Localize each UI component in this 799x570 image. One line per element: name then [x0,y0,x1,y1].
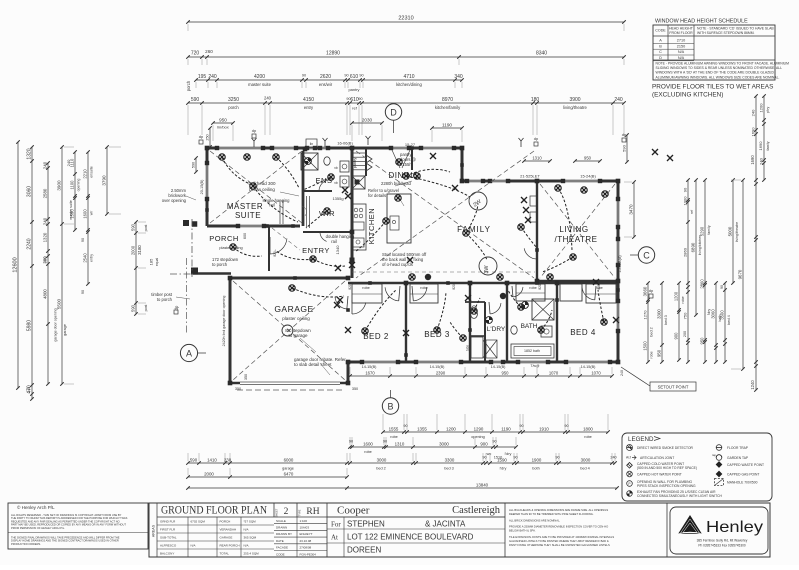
svg-text:& JACINTA: & JACINTA [425,520,466,529]
svg-text:DRAWN BY: DRAWN BY [276,532,292,536]
svg-text:2000: 2000 [131,245,136,255]
svg-text:N/A: N/A [191,543,196,547]
svg-text:CODE: CODE [655,29,666,33]
svg-text:900: 900 [674,332,679,340]
svg-text:3000: 3000 [439,442,449,447]
svg-text:BED 3: BED 3 [424,330,450,339]
svg-text:90: 90 [555,456,559,460]
svg-text:350: 350 [352,387,358,391]
svg-text:T/w@: T/w@ [531,364,540,368]
svg-text:SLIDING WINDOWS TO SIDES & RE: SLIDING WINDOWS TO SIDES & REAR UNLESS N… [656,66,783,70]
svg-text:bed 2: bed 2 [650,327,654,337]
svg-text:3060: 3060 [27,186,33,197]
svg-text:240: 240 [620,370,624,376]
svg-text:1310: 1310 [395,442,405,447]
svg-text:340: 340 [454,74,463,80]
svg-text:1510: 1510 [494,456,502,460]
svg-text:double hanging: double hanging [326,234,355,239]
svg-text:240: 240 [66,159,71,166]
svg-text:200: 200 [683,331,687,337]
svg-text:PROVIDE A 250MM DIAMETER REMOV: PROVIDE A 250MM DIAMETER REMOVABLE INSPE… [509,525,608,529]
svg-text:family: family [707,225,711,235]
svg-text:230: 230 [42,256,47,263]
svg-text:3470: 3470 [629,204,634,215]
svg-text:robe: robe [529,286,537,290]
svg-text:LEGEND: LEGEND [628,436,654,443]
svg-text:N/A: N/A [678,50,685,54]
svg-text:bed 3: bed 3 [664,315,668,325]
svg-text:DATE: DATE [276,539,284,543]
svg-text:NOTE - PROVIDE ALUMINIUM AWNIN: NOTE - PROVIDE ALUMINIUM AWNING WINDOWS … [656,62,790,66]
svg-text:l'dry: l'dry [505,452,512,456]
svg-text:PRIOR PERMISSION OF HENLEY ARC: PRIOR PERMISSION OF HENLEY ARCH P/L. [11,526,65,530]
svg-text:1690: 1690 [750,155,755,165]
svg-text:90: 90 [519,424,523,428]
svg-text:garage door opening: garage door opening [54,308,58,341]
svg-text:185: 185 [149,258,154,265]
svg-text:GARAGE: GARAGE [274,304,313,314]
svg-text:14-15(B): 14-15(B) [491,365,507,369]
svg-text:to porch: to porch [157,297,173,302]
svg-text:240: 240 [208,74,217,80]
svg-text:820: 820 [538,284,542,290]
svg-text:1690: 1690 [758,141,763,151]
svg-text:dp: dp [174,305,179,310]
svg-text:90: 90 [683,187,688,192]
svg-text:ALUMINIUM AWNING WINDOWS. ALL: ALUMINIUM AWNING WINDOWS. ALL WINDOWS SI… [656,75,780,79]
svg-text:B: B [659,44,662,48]
svg-text:REAR PORCH: REAR PORCH [220,543,240,547]
svg-text:ref: ref [690,210,694,214]
svg-text:wc: wc [487,452,492,456]
svg-text:STEPHEN: STEPHEN [347,520,385,529]
svg-text:2860: 2860 [683,247,688,257]
svg-text:robe: robe [390,435,398,439]
svg-text:2580: 2580 [43,188,48,198]
svg-text:1100: 1100 [70,180,75,190]
svg-text:20-15(B): 20-15(B) [200,179,204,195]
svg-text:equal: equal [155,258,159,267]
svg-text:1600: 1600 [363,442,373,447]
svg-text:590: 590 [622,144,627,151]
svg-text:90: 90 [383,440,387,444]
svg-text:WITH SURFACE STEPDOWN 86MM.: WITH SURFACE STEPDOWN 86MM. [697,31,755,35]
svg-text:dp: dp [252,128,257,133]
svg-text:2540: 2540 [83,253,88,263]
svg-text:pantry: pantry [348,87,359,92]
svg-text:2210: 2210 [83,169,88,179]
svg-text:Henley: Henley [706,519,763,536]
svg-text:1290: 1290 [474,427,484,432]
svg-text:2420h lind garage door opening: 2420h lind garage door opening [222,296,226,347]
svg-text:N/A: N/A [678,56,685,60]
svg-text:9670: 9670 [738,269,743,279]
svg-text:3900: 3900 [569,97,580,103]
svg-text:950: 950 [700,337,705,345]
svg-text:255.4 SQM: 255.4 SQM [244,551,260,555]
svg-text:1000: 1000 [683,196,688,206]
svg-text:1900: 1900 [532,458,542,463]
svg-text:950: 950 [219,118,227,123]
svg-text:© Henley Arch P/L: © Henley Arch P/L [17,504,55,510]
svg-text:21-525LET: 21-525LET [520,174,540,179]
svg-text:240: 240 [27,387,31,393]
svg-text:3000: 3000 [377,458,387,463]
svg-text:MASTER: MASTER [227,202,263,211]
svg-text:BATH: BATH [521,323,538,330]
svg-text:1500: 1500 [643,341,648,351]
svg-text:A: A [186,349,192,359]
svg-text:10A/03: 10A/03 [300,526,310,530]
svg-text:kitchen/dining: kitchen/dining [396,82,422,87]
svg-text:GALVANISED LINTELS TO BE PAINT: GALVANISED LINTELS TO BE PAINTED WHERE T… [509,539,609,543]
svg-text:590: 590 [191,97,200,103]
svg-text:ALL BULKHEADS & OPENING DIMENS: ALL BULKHEADS & OPENING DIMENSIONS ARE F… [509,508,608,512]
svg-text:master suite: master suite [248,82,271,87]
svg-text:3250: 3250 [228,97,239,103]
svg-text:family: family [766,141,770,150]
svg-text:240: 240 [759,157,764,164]
svg-text:dp: dp [649,288,654,293]
svg-text:dp: dp [534,136,539,141]
svg-text:robe: robe [681,296,685,303]
svg-text:3500: 3500 [720,310,725,320]
svg-text:SCALE: SCALE [276,519,286,523]
svg-text:5290: 5290 [700,226,705,236]
svg-text:entry: entry [304,105,314,110]
svg-text:1600: 1600 [83,209,88,219]
svg-text:90: 90 [349,440,353,444]
svg-text:750: 750 [683,312,688,319]
svg-text:VERANDAH: VERANDAH [220,527,237,531]
svg-text:15-12B(A): 15-12B(A) [618,255,622,273]
svg-text:KITCHEN: KITCHEN [367,208,376,244]
svg-text:SUITE: SUITE [235,211,261,220]
svg-text:5980: 5980 [27,320,33,331]
svg-text:240: 240 [43,217,48,225]
svg-text:bed 2: bed 2 [376,467,386,471]
svg-text:4710: 4710 [403,74,414,80]
svg-text:opening: opening [77,179,81,192]
svg-text:610: 610 [350,74,359,80]
svg-text:240: 240 [43,161,48,169]
svg-text:3900: 3900 [57,180,62,191]
svg-text:rail: rail [331,239,337,244]
svg-text:AREAS: AREAS [152,524,156,537]
svg-text:TOTAL: TOTAL [220,551,230,555]
svg-text:90: 90 [359,74,363,78]
svg-text:90: 90 [358,97,362,101]
svg-text:950: 950 [502,371,510,376]
svg-text:lin/box: lin/box [217,125,229,130]
svg-text:A/J: A/J [626,456,631,460]
svg-text:l'dry: l'dry [500,467,507,471]
svg-text:to slab detail sheet: to slab detail sheet [294,362,332,367]
svg-text:TYPE: TYPE [298,509,302,516]
svg-text:1190: 1190 [442,123,452,128]
svg-text:16-06(B): 16-06(B) [337,141,353,146]
svg-text:820: 820 [348,284,352,290]
svg-text:385 Ferntree Gully Rd, Mt Wave: 385 Ferntree Gully Rd, Mt Waverley [697,539,748,543]
svg-text:BED 4: BED 4 [570,328,596,337]
svg-text:for details: for details [368,193,386,198]
svg-text:90: 90 [482,456,486,460]
svg-text:porch: porch [228,105,239,110]
svg-text:PAINT FINISH OTHERWISE THEY SH: PAINT FINISH OTHERWISE THEY SHALL BE UNP… [509,543,610,547]
svg-text:plaster ceiling: plaster ceiling [282,316,310,321]
svg-text:1340: 1340 [335,245,340,255]
svg-text:ARTICULATION JOINT: ARTICULATION JOINT [640,456,674,460]
svg-text:living/kitchen: living/kitchen [698,235,702,256]
svg-text:opening: opening [471,435,485,439]
svg-text:PIPES STACK INSPECTION OPENING: PIPES STACK INSPECTION OPENING [637,484,696,488]
svg-text:2150: 2150 [677,44,685,48]
svg-text:RH: RH [306,507,319,517]
svg-text:90: 90 [492,440,496,444]
svg-text:90: 90 [346,97,350,101]
svg-text:1:100: 1:100 [300,519,308,523]
svg-text:240: 240 [751,109,756,116]
svg-text:P: P [628,482,630,486]
svg-text:bed 4: bed 4 [580,467,590,471]
svg-text:D: D [659,56,662,60]
svg-text:SETOUT POINT: SETOUT POINT [658,385,689,390]
svg-text:1270: 1270 [643,310,648,320]
svg-text:2710: 2710 [677,39,685,43]
svg-text:1355g: 1355g [332,196,343,201]
svg-text:12890: 12890 [326,51,340,57]
svg-text:PRODUCTION ORDERS.: PRODUCTION ORDERS. [11,542,41,546]
svg-text:robe: robe [650,351,654,358]
svg-text:15-24(B): 15-24(B) [580,174,596,179]
svg-text:*57 SQM: *57 SQM [244,519,257,523]
svg-text:BELOW BATH & SPA.: BELOW BATH & SPA. [509,529,536,533]
svg-text:tap: tap [712,453,716,457]
svg-text:A: A [659,39,662,43]
svg-text:240: 240 [264,96,272,101]
svg-text:2280h bulkhead: 2280h bulkhead [381,181,411,186]
svg-text:6702 SQM: 6702 SQM [191,519,206,523]
svg-text:MANHOLE 700X500: MANHOLE 700X500 [727,481,758,485]
svg-text:FLOOR TRAP: FLOOR TRAP [727,446,749,450]
svg-text:post: post [144,225,148,232]
svg-text:B: B [387,402,393,412]
svg-text:robe: robe [584,435,592,439]
svg-text:bed 3: bed 3 [444,467,454,471]
svg-text:(500 IN AND 500 HIGH TO REF SP: (500 IN AND 500 HIGH TO REF SPACE) [637,466,697,470]
svg-text:SHEET: SHEET [275,508,279,517]
svg-text:WINDOW HEAD HEIGHT SCHEDULE: WINDOW HEAD HEIGHT SCHEDULE [655,19,748,25]
svg-text:3300: 3300 [445,458,455,463]
svg-text:LIVING: LIVING [559,225,588,234]
svg-text:12600: 12600 [13,257,19,272]
svg-text:/THEATRE: /THEATRE [555,235,598,244]
svg-text:robe: robe [364,450,372,454]
svg-text:22310: 22310 [398,16,413,22]
svg-text:1190: 1190 [501,427,511,432]
svg-text:BALCONY: BALCONY [160,551,174,555]
svg-text:robe: robe [362,286,370,290]
svg-text:C: C [643,251,650,261]
svg-text:2620: 2620 [320,74,331,80]
svg-text:GARAGE: GARAGE [220,535,233,539]
svg-text:PORCH: PORCH [220,519,231,523]
svg-text:PROVIDE FLOOR TILES TO WET ARE: PROVIDE FLOOR TILES TO WET AREAS [652,84,773,91]
svg-text:TILE EXPANSION JOINTS ARE TO B: TILE EXPANSION JOINTS ARE TO BE PROVIDED… [509,535,614,539]
svg-text:Ph 0395745333 Fax 0395745300: Ph 0395745333 Fax 0395745300 [698,544,746,548]
svg-text:GRND FLR: GRND FLR [160,519,176,523]
svg-text:Castlereigh: Castlereigh [452,505,501,516]
svg-text:1410: 1410 [207,458,217,463]
svg-text:3000: 3000 [581,458,591,463]
svg-text:2240: 2240 [27,238,33,249]
svg-text:820: 820 [452,284,456,290]
svg-text:CAPPED HOT WATER POINT: CAPPED HOT WATER POINT [637,473,682,477]
svg-text:1320: 1320 [27,148,33,159]
svg-text:dp: dp [199,134,204,139]
svg-text:Cooper: Cooper [337,505,370,517]
svg-text:2860: 2860 [700,279,705,289]
svg-text:2000: 2000 [204,472,214,477]
svg-text:3300: 3300 [657,309,662,319]
svg-text:590: 590 [131,223,136,231]
svg-text:90: 90 [344,74,348,78]
svg-text:lin: lin [310,142,314,146]
svg-text:D: D [390,108,397,118]
svg-text:bed 4: bed 4 [727,315,731,325]
svg-text:590: 590 [131,304,136,312]
svg-text:590: 590 [192,162,196,168]
svg-text:ensuite: ensuite [90,166,94,178]
svg-text:195: 195 [198,74,207,80]
svg-text:1240: 1240 [750,380,755,390]
svg-text:1200: 1200 [446,427,456,432]
svg-text:90: 90 [403,424,407,428]
svg-text:DOREEN: DOREEN [347,546,381,555]
svg-text:of o-head cup'ds: of o-head cup'ds [382,262,413,267]
svg-text:vb: vb [334,181,338,185]
svg-text:900: 900 [480,442,488,447]
svg-text:C: C [659,50,662,54]
svg-text:to porch: to porch [212,262,228,267]
svg-text:pantry: pantry [353,158,357,169]
svg-text:N/A.: N/A. [244,543,250,547]
svg-text:14-15(B): 14-15(B) [581,365,597,369]
svg-text:over opening: over opening [162,198,187,203]
svg-text:GROUND FLOOR PLAN: GROUND FLOOR PLAN [161,503,267,517]
svg-text:SUB-TOTAL: SUB-TOTAL [160,535,177,539]
svg-text:single hanging: single hanging [262,198,290,203]
svg-text:LOT 122 EMINENCE BOULEVARD: LOT 122 EMINENCE BOULEVARD [347,533,474,542]
svg-text:14-15(B): 14-15(B) [430,365,446,369]
svg-text:1670: 1670 [365,371,375,376]
svg-text:1910: 1910 [539,427,549,432]
svg-text:950: 950 [657,349,662,357]
svg-text:1852 bath: 1852 bath [524,349,540,353]
svg-text:590: 590 [190,458,198,463]
svg-text:1200: 1200 [674,291,679,301]
svg-text:240: 240 [614,97,623,103]
svg-text:14-15(B): 14-15(B) [362,365,378,369]
svg-text:CODE: CODE [276,552,285,556]
svg-text:post: post [144,305,148,312]
svg-text:1070: 1070 [549,371,559,376]
svg-text:6890: 6890 [691,242,696,252]
svg-text:2: 2 [284,507,289,517]
svg-text:600: 600 [243,233,247,239]
svg-text:350: 350 [244,374,248,380]
svg-text:90: 90 [81,238,85,242]
svg-text:FROM FLOOR: FROM FLOOR [669,31,693,35]
svg-text:1555: 1555 [389,427,399,432]
svg-text:720: 720 [191,51,200,57]
svg-text:2390: 2390 [436,371,446,376]
svg-text:DEEPER THAN 90 TO BE TRIMMED: DEEPER THAN 90 TO BE TRIMMED WITH PINE S… [509,512,594,516]
svg-text:23.10.08: 23.10.08 [300,539,312,543]
svg-text:(EXCLUDING KITCHEN): (EXCLUDING KITCHEN) [652,92,723,99]
svg-text:4150: 4150 [303,97,314,103]
svg-text:ENH/EYT: ENH/EYT [300,532,313,536]
svg-text:ALL BRICK DIMENSIONS ARE NOMIN: ALL BRICK DIMENSIONS ARE NOMINAL. [509,518,561,522]
svg-text:N/A: N/A [244,527,249,531]
svg-text:230: 230 [224,458,232,463]
svg-text:90: 90 [513,456,517,460]
svg-text:1690: 1690 [751,127,756,137]
svg-text:robe: robe [420,286,428,290]
svg-text:90: 90 [720,285,724,289]
svg-text:WINDOWS WITH A 'DD' AT THE END: WINDOWS WITH A 'DD' AT THE END OF THE CO… [656,71,775,75]
svg-text:both: both [532,467,539,471]
svg-text:GARDEN TAP: GARDEN TAP [727,456,749,460]
svg-text:2030: 2030 [362,118,373,123]
svg-text:820: 820 [273,251,277,257]
svg-text:living/theatre: living/theatre [735,222,739,242]
svg-text:180: 180 [531,97,540,103]
svg-text:3660: 3660 [643,286,648,296]
svg-text:ALFRESCO: ALFRESCO [160,543,177,547]
svg-text:CONNECTED SIMULTANEOUSLY WITH: CONNECTED SIMULTANEOUSLY WITH LIGHT SWIT… [637,494,722,498]
svg-text:13840: 13840 [476,483,489,488]
svg-text:p'try: p'try [766,107,770,114]
svg-text:living/theatre: living/theatre [563,105,587,110]
svg-text:master suite: master suite [69,200,73,220]
svg-text:8970: 8970 [442,97,453,103]
svg-text:FACADE: FACADE [276,546,288,550]
svg-text:950: 950 [584,156,592,161]
svg-text:5000: 5000 [728,226,733,236]
svg-text:ens/wir: ens/wir [319,82,333,87]
svg-text:4200: 4200 [254,74,265,80]
svg-text:garage: garage [63,324,67,336]
svg-text:6000: 6000 [284,458,294,463]
svg-text:vb: vb [334,166,338,170]
svg-text:350: 350 [235,387,241,391]
svg-text:3060: 3060 [711,309,716,319]
svg-text:240: 240 [610,456,616,460]
svg-text:porch: porch [186,80,191,91]
svg-text:PORCH: PORCH [209,234,239,243]
svg-text:DRAWN: DRAWN [276,526,287,530]
svg-text:6470: 6470 [284,472,294,477]
svg-text:tubs: tubs [466,345,470,351]
svg-text:entry: entry [90,254,94,262]
svg-text:1355: 1355 [417,427,427,432]
svg-text:3W: 3W [484,265,490,274]
svg-text:90: 90 [81,290,85,294]
svg-text:90: 90 [564,424,568,428]
svg-text:CAPPED GAS POINT: CAPPED GAS POINT [727,473,759,477]
svg-text:garage: garage [282,467,294,471]
